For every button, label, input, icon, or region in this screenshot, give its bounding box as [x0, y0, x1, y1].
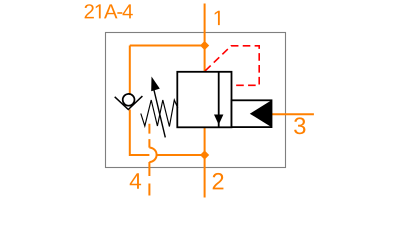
wire port 2 vertical [204, 127, 206, 198]
port label 2 [213, 173, 224, 189]
check valve circle [123, 94, 135, 106]
drain wire crossover arc [149, 148, 156, 162]
pilot actuator triangle [250, 100, 272, 127]
check valve seat [115, 96, 143, 109]
enclosure border [106, 33, 286, 168]
title label 21A-4 [85, 4, 94, 18]
drain wire dashed lower port 4 [148, 162, 150, 196]
port label 3 [294, 117, 305, 134]
junction node top [200, 41, 209, 50]
adjustment arrow shaft [154, 89, 166, 138]
valve inner flow line [218, 72, 220, 128]
valve body box [177, 72, 231, 128]
junction node bottom [200, 150, 209, 159]
wire port 1 vertical [204, 4, 206, 73]
pilot actuator box [232, 100, 272, 127]
wire top horizontal [130, 45, 205, 47]
adjustment arrowhead [151, 77, 160, 92]
wire left vertical upper [129, 46, 131, 95]
port label 1 [215, 11, 220, 25]
spring [141, 100, 178, 127]
valve flow arrowhead [214, 115, 223, 125]
port label 4 [130, 173, 141, 189]
wire left vertical lower and bottom horizontal [130, 110, 205, 156]
wire port 3 horizontal [272, 113, 314, 115]
drain wire dashed upper [148, 124, 150, 148]
pilot line red dashed [205, 46, 259, 86]
